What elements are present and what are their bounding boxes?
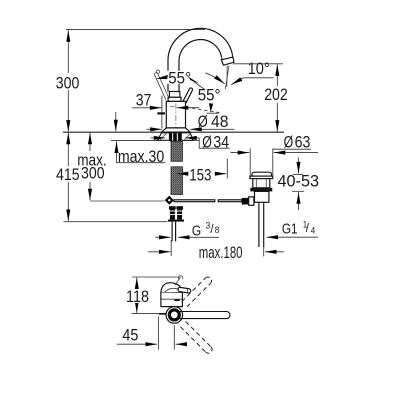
dimension 202 vertical line <box>276 64 278 131</box>
swivel ring (black annulus) <box>169 310 179 320</box>
dimension 37 right arrow <box>177 107 200 109</box>
max.30 pointer above counter <box>115 112 117 131</box>
svg-text:8: 8 <box>215 225 220 236</box>
leader from 10 bracket with arrow <box>231 78 243 85</box>
swivel circle outer <box>166 307 183 324</box>
dimension O48 arrows <box>147 128 162 130</box>
max.30 pointer below counter <box>116 142 118 163</box>
153 extension tick <box>226 159 228 179</box>
svg-text:55°: 55° <box>198 87 221 105</box>
faucet collar <box>168 97 181 101</box>
drain plug cap <box>252 172 272 176</box>
label 118 <box>124 289 150 303</box>
svg-text:40-53: 40-53 <box>278 172 320 190</box>
dimension 300 vertical line with arrows <box>67 30 69 131</box>
svg-text:G: G <box>192 224 201 240</box>
counter bottom line right segment <box>190 139 199 141</box>
svg-text:Ø: Ø <box>198 113 208 131</box>
dashed swivel bar lower <box>180 322 212 354</box>
svg-text:34: 34 <box>213 133 229 151</box>
drain upper body <box>253 179 270 188</box>
svg-text:300: 300 <box>56 74 80 92</box>
body centerline <box>175 104 177 132</box>
washer left (hatched) <box>158 133 170 141</box>
water stream / 10 degree lines <box>226 66 228 88</box>
svg-text:202: 202 <box>264 86 288 104</box>
extension line at supply end level <box>64 221 168 223</box>
lever handle solid (up-right) <box>182 87 193 104</box>
37 / O48 extension line <box>161 96 163 129</box>
dimension 118 vertical line <box>136 278 138 313</box>
counter top line <box>63 131 284 133</box>
dimension 40-53 lower arrow <box>292 190 304 192</box>
max.180 right extension <box>263 245 265 257</box>
body joint line <box>162 298 183 300</box>
dimension 153 arrows <box>177 173 188 175</box>
dashed swivel bar upper <box>182 277 212 307</box>
faucet body <box>166 101 185 128</box>
curl at thin lever tip <box>156 70 159 73</box>
supply connection block <box>169 206 176 209</box>
svg-text:48: 48 <box>211 113 228 131</box>
body center cross dash <box>170 105 175 107</box>
svg-text:300: 300 <box>81 164 105 182</box>
curved leader with arrow (left of stream) <box>206 73 225 84</box>
aerator tip <box>221 56 234 65</box>
svg-text:55°: 55° <box>168 69 191 87</box>
threaded rod lower segment <box>171 167 183 195</box>
leader to second 55 <box>193 81 210 93</box>
svg-text:45: 45 <box>122 326 138 344</box>
arrowhead below second 55 pointing down <box>209 103 213 112</box>
lever thin outline (rotated left position) <box>155 73 170 100</box>
top view body <box>161 292 183 306</box>
dashed lever horizontal position <box>186 107 220 112</box>
45 extension lines <box>157 317 159 350</box>
dimension max.180 line right <box>265 251 284 253</box>
faucet neck (cartridge) <box>169 92 180 98</box>
dome inner arc <box>165 288 182 292</box>
pop-up rod segment 1 <box>174 200 215 202</box>
dimension max.300 vertical line with arrows <box>89 133 91 201</box>
pull rod cross joint <box>165 196 174 205</box>
threaded rod upper segment <box>171 141 183 161</box>
drain flange <box>250 176 273 179</box>
svg-text:10°: 10° <box>248 60 270 78</box>
short line under arrow <box>207 112 220 114</box>
dimension O63 extension lines <box>249 149 251 176</box>
top reference line <box>132 276 180 278</box>
drain locknut <box>250 188 272 192</box>
top extension line (300 upper reference) <box>66 29 205 31</box>
arrowhead left of 55 <box>156 75 168 79</box>
svg-text:max.180: max.180 <box>199 244 243 262</box>
drain tailpipe <box>258 202 260 247</box>
lever top view <box>178 287 191 293</box>
body inner dark dash <box>174 299 179 301</box>
dimension 37 left arrow <box>132 107 161 109</box>
pop-up rod segment 2 <box>218 200 242 202</box>
label 55 (second) background <box>197 90 222 102</box>
svg-text:153: 153 <box>189 167 211 185</box>
bottom reference line <box>132 313 167 315</box>
svg-text:4: 4 <box>311 225 316 236</box>
arrowhead right of 55 <box>188 77 199 84</box>
dimension 40-53 upper arrow <box>298 158 300 174</box>
label G1 1/4 with shelf <box>282 220 315 238</box>
base flange <box>161 128 190 132</box>
curl at lever tip <box>178 276 183 280</box>
mounting nut (black) <box>170 133 182 142</box>
counter bottom line left segment <box>111 139 162 141</box>
rod coupling white <box>249 197 254 205</box>
rod coupling black <box>242 198 249 205</box>
max.180 left extension <box>170 240 172 256</box>
spout bar top view <box>177 312 231 319</box>
dimension O63 arrows <box>231 152 250 154</box>
O34 leader bracket <box>199 138 230 148</box>
dimension O34 arrows <box>151 137 166 139</box>
drain lower body <box>255 191 269 202</box>
label 55 (first) background <box>167 71 195 84</box>
pull rod horizontal thin line <box>90 200 165 202</box>
label G3/8 <box>192 221 220 240</box>
dimension 202 top extension line <box>233 63 283 65</box>
svg-text:Ø: Ø <box>202 133 212 151</box>
washer right (hatched) <box>181 133 193 141</box>
spout tube (arc) <box>168 28 233 91</box>
lever left position mark <box>157 112 165 114</box>
thin lever up line <box>175 277 181 286</box>
bracket under 10 label <box>244 77 274 79</box>
svg-text:37: 37 <box>136 91 152 109</box>
svg-text:118: 118 <box>126 288 149 306</box>
svg-text:415: 415 <box>56 166 80 184</box>
dimension G3/8 arrows <box>155 236 170 238</box>
body dome <box>161 283 182 293</box>
svg-text:G1: G1 <box>282 222 298 238</box>
supply tube <box>171 222 173 242</box>
dimension 415 vertical line with arrows <box>67 133 69 221</box>
dimension max.180 line left <box>148 251 171 253</box>
